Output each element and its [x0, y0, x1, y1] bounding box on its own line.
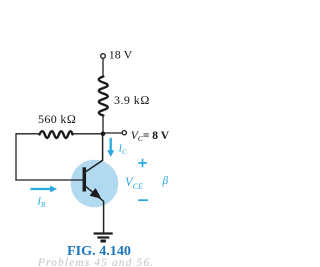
transistor Q1 base bar — [83, 167, 87, 191]
resistor RC 3.9k zigzag — [99, 77, 108, 116]
svg-text:Problems 45 and 56.: Problems 45 and 56. — [37, 257, 154, 267]
wire: 560k left to corner — [16, 133, 40, 135]
svg-text:3.9 kΩ: 3.9 kΩ — [114, 93, 150, 107]
resistor RB 560k zigzag — [40, 131, 73, 138]
svg-text:IB: IB — [37, 197, 47, 210]
svg-text:β: β — [162, 175, 169, 187]
transistor Q1 collector lead — [84, 134, 102, 173]
svg-text:18 V: 18 V — [109, 48, 133, 62]
transistor Q1 emitter arrowhead — [91, 189, 101, 198]
svg-text:VCE: VCE — [125, 175, 143, 191]
svg-text:560 kΩ: 560 kΩ — [38, 112, 76, 126]
svg-text:VC= 8 V: VC= 8 V — [131, 130, 170, 143]
node: 18V supply terminal — [101, 54, 106, 59]
wire: resistor bottom to collector node — [102, 115, 104, 134]
node: collector junction dot — [101, 132, 106, 137]
transistor Q1 body circle — [71, 160, 119, 208]
node: VC open terminal — [122, 131, 126, 135]
wire: stub to VC terminal — [103, 132, 122, 134]
label: plus sign — [138, 159, 147, 168]
transistor Q1 emitter lead — [84, 185, 103, 233]
svg-text:IC: IC — [118, 144, 128, 157]
wire: supply terminal to resistor top — [102, 59, 104, 77]
wire: collector node left stub — [73, 133, 104, 135]
wire: left vertical feedback run — [15, 133, 17, 180]
current arrow IC — [110, 138, 112, 152]
wire: base lead — [15, 179, 83, 181]
current arrow IB — [31, 188, 53, 190]
label: minus sign — [138, 199, 148, 201]
ground symbol — [94, 232, 113, 234]
